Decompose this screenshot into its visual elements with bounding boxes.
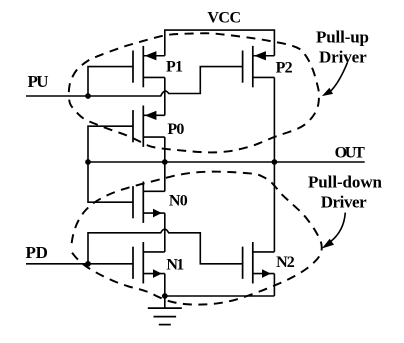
wire PD branch with hop, to N2 gate [88, 229, 243, 264]
svg-text:Pull-up: Pull-up [316, 27, 369, 46]
wire OUT down to N2 drain [273, 162, 275, 252]
svg-text:VCC: VCC [207, 9, 241, 26]
wire left rail P0 gate to OUT to N0 gate [88, 126, 133, 202]
transistor P1 [133, 46, 165, 87]
wire P2 drain down to OUT [273, 77, 275, 162]
transistor P2 [243, 46, 275, 87]
node OUT right junction dot [272, 159, 278, 165]
svg-text:Driver: Driver [321, 192, 367, 211]
wire N0 source down to N1 drain [164, 213, 166, 252]
node PU junction dot [85, 93, 91, 99]
wire PU input with hop over node, to P2 gate [26, 67, 243, 96]
svg-text:PU: PU [28, 72, 49, 91]
wire OUT down to N0 drain [164, 162, 166, 191]
svg-text:OUT: OUT [335, 144, 365, 161]
transistor N2 [243, 242, 275, 283]
svg-text:P0: P0 [167, 121, 184, 138]
wire P0 drain down to OUT node [164, 137, 166, 162]
wire P1 drain down to P0 source [164, 77, 166, 115]
wire N1 source down to ground junction [164, 274, 166, 296]
node PD junction dot [85, 261, 91, 267]
svg-text:N0: N0 [169, 193, 188, 210]
wire N2 source down to bottom rail [273, 274, 275, 296]
dashed ellipse pull-down group [71, 172, 322, 305]
svg-text:PD: PD [26, 243, 48, 262]
wire VCC top rail [165, 30, 275, 56]
ground symbol [148, 296, 182, 325]
svg-text:N2: N2 [276, 254, 295, 271]
wire bottom ground rail [165, 295, 275, 297]
svg-text:N1: N1 [166, 256, 184, 273]
wire OUT output line [88, 161, 365, 163]
node ground junction dot [162, 293, 168, 299]
node OUT center junction dot [162, 159, 168, 165]
svg-text:Pull-down: Pull-down [308, 173, 383, 192]
wire PU junction up to P1 gate [88, 67, 133, 96]
transistor P0 [133, 106, 165, 147]
svg-text:Driver: Driver [319, 48, 367, 67]
node OUT left junction dot [85, 159, 91, 165]
transistor N1 [133, 242, 165, 283]
dashed ellipse pull-up group [69, 33, 319, 152]
svg-text:P1: P1 [166, 58, 183, 75]
transistor N0 [133, 182, 165, 223]
annotation arrow to pull-up ellipse [322, 63, 348, 97]
annotation arrow to pull-down ellipse [322, 213, 346, 249]
svg-text:P2: P2 [276, 60, 293, 77]
wire PD input to N1 gate [26, 263, 133, 265]
